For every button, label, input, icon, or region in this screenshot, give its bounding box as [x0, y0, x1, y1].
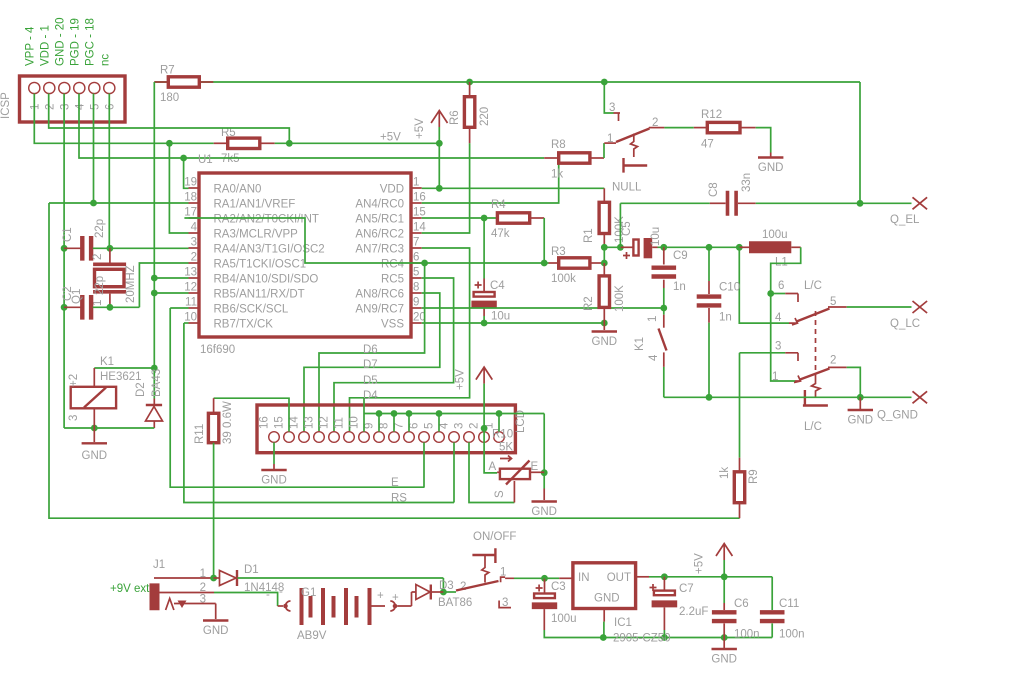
junction [421, 260, 428, 267]
svg-text:R1: R1 [583, 228, 595, 243]
svg-text:+2: +2 [68, 374, 80, 387]
svg-text:5: 5 [89, 104, 101, 110]
svg-text:OUT: OUT [607, 572, 631, 584]
svg-text:2: 2 [44, 104, 56, 110]
junction [721, 634, 728, 641]
wire LCD ground bus down to pot E [543, 414, 545, 473]
U1 pin 10 RB7/TX/CK stub [189, 322, 200, 324]
U1 pin 15 AN5/RC1 stub [411, 217, 422, 219]
svg-text:1n: 1n [719, 312, 732, 324]
wire to C8 [620, 202, 709, 204]
svg-text:RA4/AN3/T1GI/OSC2: RA4/AN3/T1GI/OSC2 [214, 244, 325, 256]
U1 pin 13 RB4/AN10/SDI/SDO stub [189, 277, 200, 279]
svg-text:8: 8 [379, 423, 391, 429]
svg-text:100n: 100n [734, 629, 760, 641]
ground symbol under C6 [712, 648, 737, 650]
U1 pin 7 AN7/RC3 stub [411, 247, 422, 249]
svg-text:8: 8 [413, 282, 419, 294]
potentiometer R10 5K [497, 471, 500, 473]
svg-text:+5V: +5V [694, 553, 706, 574]
svg-text:10: 10 [349, 416, 361, 429]
pin Q_GND [913, 391, 928, 403]
wire LCD pin stub x=394 [393, 414, 395, 432]
svg-text:22p: 22p [94, 276, 106, 295]
wire PGD to R8 [79, 94, 544, 159]
svg-text:Q_LC: Q_LC [890, 318, 920, 330]
connector ICSP J? box [20, 76, 126, 122]
wire R11 bottom to +9V node [213, 443, 215, 578]
wire C8 to Q_EL [756, 202, 912, 204]
svg-text:RA1/AN1/VREF: RA1/AN1/VREF [214, 199, 296, 211]
wire R8 to NULL pin1 [603, 143, 605, 158]
wire C8 branch down to C5 node [619, 203, 621, 247]
LCD pin 8 circle [389, 432, 400, 443]
capacitor C7 2.2uF [663, 577, 665, 591]
inductor L1 100u [739, 246, 749, 248]
svg-text:6: 6 [409, 423, 421, 429]
pin Q_LC [913, 301, 928, 313]
svg-text:VDD: VDD [380, 184, 404, 196]
capacitor C5 10u [620, 246, 633, 248]
svg-text:R3: R3 [551, 246, 566, 258]
wire +5V to LCD pin2 [483, 384, 485, 429]
capacitor C9 1n [663, 247, 665, 264]
junction [481, 320, 488, 327]
svg-text:E: E [531, 461, 539, 473]
junction [436, 410, 443, 417]
svg-text:2: 2 [830, 355, 836, 367]
svg-text:220: 220 [479, 107, 491, 126]
wire NULL pin3 from top rail [604, 82, 613, 113]
wire K1 contact to Q_GND line [663, 367, 665, 397]
wire GND rail x=64 [63, 94, 65, 429]
wire D5 net U1 pin5 to LCD pin12 [334, 278, 454, 432]
svg-text:3: 3 [454, 423, 466, 429]
svg-text:C6: C6 [734, 598, 749, 610]
IC U1 16f690 box [199, 173, 411, 337]
wire to L/C pin6 [771, 293, 786, 295]
svg-text:RC4: RC4 [381, 259, 405, 271]
svg-text:AN8/RC6: AN8/RC6 [355, 289, 404, 301]
L/C switch mechanical link [815, 311, 817, 377]
resistor R8 [559, 153, 590, 163]
svg-text:1k: 1k [551, 169, 563, 181]
wire R5 right lead [260, 142, 275, 144]
wire C1 left lead [64, 247, 81, 249]
ground under R12 [758, 156, 783, 158]
svg-text:RA0/AN0: RA0/AN0 [214, 184, 262, 196]
svg-text:20MHZ: 20MHZ [125, 265, 137, 303]
L/C switch pin 6 stub [785, 294, 798, 303]
ICSP pin 2 circle [44, 82, 55, 93]
svg-text:GND: GND [261, 475, 287, 487]
wire rail from PGC node down-left and bottom [49, 203, 740, 518]
svg-text:9: 9 [413, 297, 419, 309]
svg-text:D2: D2 [135, 382, 147, 397]
crystal Q1 20MHz [93, 263, 126, 294]
+5V supply arrow at regulator [716, 544, 732, 561]
svg-text:2: 2 [469, 423, 481, 429]
svg-text:RB6/SCK/SCL: RB6/SCK/SCL [214, 304, 289, 316]
wire Q_GND line [664, 396, 912, 398]
capacitor C1 22p [80, 236, 93, 261]
wire D1 cathode to ON/OFF node [238, 577, 444, 579]
wire VDD from ICSP pin2 [49, 94, 290, 144]
svg-text:2: 2 [460, 581, 466, 593]
LCD pin 15 circle [284, 432, 295, 443]
wire U1 pin12 connection [154, 292, 188, 294]
svg-text:100n: 100n [779, 629, 805, 641]
svg-text:6: 6 [778, 280, 784, 292]
svg-text:R6: R6 [449, 110, 461, 125]
wire R2 bottom lead [603, 307, 605, 323]
svg-text:+5V: +5V [414, 118, 426, 139]
diode D2 BA43 [146, 404, 162, 406]
ground symbol under pot [532, 500, 557, 502]
wire R3 right lead [590, 262, 604, 264]
junction [481, 425, 488, 432]
wire relay-drive vertical x=154 [153, 82, 155, 399]
wire net +EL top rail y=82 [154, 81, 860, 83]
wire L/C pin3 down to R9 [739, 353, 741, 458]
wire C4 bottom to VSS line [483, 316, 485, 323]
battery G1 AB9V [278, 605, 283, 607]
svg-text:14: 14 [289, 416, 301, 429]
svg-text:R11: R11 [194, 424, 206, 444]
switch K1 contact [663, 315, 665, 328]
wire R4 right lead [530, 217, 545, 219]
wire R5 left lead [214, 142, 228, 144]
U1 pin 17 RA2/AN2/T0CKI/INT stub [189, 217, 200, 219]
wire R7 right lead [199, 81, 213, 83]
svg-text:1: 1 [772, 371, 778, 383]
wire D7 net U1 pin8 to LCD pin14 [304, 293, 440, 432]
svg-text:AN4/RC0: AN4/RC0 [355, 199, 404, 211]
wire VSS U1 pin20 to GND [422, 322, 605, 324]
wire +5V arrow stem [723, 560, 725, 577]
svg-text:A: A [489, 461, 497, 473]
wire C10 bottom [708, 323, 710, 398]
U1 pin 18 RA1/AN1/VREF stub [189, 202, 200, 204]
svg-text:+5V: +5V [380, 132, 401, 144]
svg-text:7k5: 7k5 [221, 153, 240, 165]
svg-text:R9: R9 [748, 469, 760, 484]
wire RA2 pin17 through box to RC4 [184, 218, 421, 263]
capacitor C6 plates [712, 610, 737, 623]
svg-text:PGC - 18: PGC - 18 [84, 18, 96, 66]
svg-text:C3: C3 [551, 581, 566, 593]
svg-text:Q1: Q1 [71, 289, 83, 304]
svg-text:14: 14 [413, 222, 426, 234]
wire LCD pin3 to pot wiper [469, 442, 514, 502]
junction [617, 244, 624, 251]
svg-text:RB4/AN10/SDI/SDO: RB4/AN10/SDI/SDO [214, 274, 319, 286]
svg-text:5K: 5K [499, 442, 513, 454]
wire LCD ground bus [364, 413, 544, 415]
wire LCD pin stub x=409 [408, 414, 410, 432]
svg-text:D6: D6 [363, 344, 378, 356]
svg-text:S: S [494, 490, 506, 498]
ICSP pin 4 circle [74, 82, 85, 93]
wire R1 to R2 node [603, 247, 605, 263]
svg-text:+5V: +5V [455, 369, 467, 390]
svg-text:NULL: NULL [612, 182, 642, 194]
junction [436, 185, 443, 192]
wire U1 pin11 stub join [170, 307, 188, 309]
wire crystal top to U1 pin3 [93, 247, 189, 249]
junction [736, 244, 743, 251]
svg-text:HE3621: HE3621 [100, 371, 142, 383]
svg-text:1n: 1n [673, 281, 686, 293]
wire RS to LCD pin4 [453, 442, 455, 502]
svg-text:D7: D7 [363, 359, 378, 371]
svg-text:2.2uF: 2.2uF [679, 606, 708, 618]
svg-text:1: 1 [200, 568, 206, 580]
LCD pin 2 circle [479, 432, 490, 443]
svg-text:19: 19 [184, 177, 197, 189]
svg-text:R12: R12 [701, 109, 722, 121]
junction [166, 140, 173, 147]
svg-text:RS: RS [391, 493, 407, 505]
svg-text:C1: C1 [62, 227, 74, 242]
junction [496, 410, 503, 417]
wire R12 left lead [694, 127, 708, 129]
capacitor C2 22p [80, 295, 93, 320]
svg-text:5: 5 [413, 267, 419, 279]
svg-text:D1: D1 [244, 564, 259, 576]
svg-text:GND: GND [82, 450, 108, 462]
wire LCD pin stub x=499 [498, 414, 500, 432]
LCD pin 16 circle [269, 432, 280, 443]
wire LCD pin stub x=439 [438, 414, 440, 432]
svg-text:R4: R4 [491, 199, 506, 211]
junction [857, 200, 864, 207]
wire LCD pin10 column [363, 398, 365, 432]
wire crystal bottom jog to U1 pin2 OSC1 [139, 263, 188, 307]
L/C switch upper pole pin4-5 [789, 318, 798, 325]
wire D4 net U1 pin7 to LCD pin11 [350, 248, 470, 432]
LCD pin 12 circle [329, 432, 340, 443]
diode D1 1N4148 [214, 577, 220, 579]
svg-text:18: 18 [184, 192, 197, 204]
svg-text:16f690: 16f690 [200, 344, 235, 356]
wire switch to C3/IN node [514, 577, 545, 579]
wire C4 top [483, 218, 485, 279]
svg-text:1: 1 [413, 177, 419, 189]
svg-text:GND: GND [203, 625, 229, 637]
wire +5V to arrow [275, 142, 440, 144]
junction [661, 573, 668, 580]
wire LCD pin stub x=379 [378, 414, 380, 432]
ground symbol under LCD pin16 [261, 469, 286, 471]
svg-text:7: 7 [394, 423, 406, 429]
U1 pin 8 AN8/RC6 stub [411, 292, 422, 294]
svg-text:nc: nc [99, 54, 111, 66]
junction [601, 320, 608, 327]
ICSP pin 6 circle [104, 82, 115, 93]
svg-text:6: 6 [413, 252, 419, 264]
svg-text:VPP - 4: VPP - 4 [24, 26, 36, 66]
NULL actuator [631, 134, 638, 158]
svg-text:R2: R2 [583, 296, 595, 311]
wire to ground under pot [543, 473, 545, 489]
svg-text:4: 4 [648, 354, 660, 361]
resistor R6 [464, 97, 474, 128]
LCD pin 1 circle [494, 432, 505, 443]
svg-text:16: 16 [413, 192, 426, 204]
svg-text:AN6/RC2: AN6/RC2 [355, 229, 404, 241]
svg-text:ON/OFF: ON/OFF [473, 531, 516, 543]
wire L/C pin2 down to Q_GND line [847, 367, 861, 397]
svg-text:100u: 100u [762, 229, 788, 241]
resistor R4 [497, 213, 529, 223]
junction [466, 79, 473, 86]
junction [767, 290, 774, 297]
LCD pin 6 circle [419, 432, 430, 443]
svg-text:GND - 20: GND - 20 [54, 17, 66, 66]
wire L1 right to switch common [771, 247, 801, 381]
svg-text:C9: C9 [673, 250, 688, 262]
wire PGC node to rail [49, 202, 94, 204]
capacitor C11 plates [760, 610, 785, 623]
wire C5 left [604, 246, 620, 248]
wire R1 bottom lead [603, 234, 605, 248]
svg-text:13: 13 [184, 267, 197, 279]
wire J1 pin2 to battery minus [214, 593, 278, 607]
svg-text:15: 15 [413, 207, 426, 219]
svg-text:IC1: IC1 [614, 617, 632, 629]
svg-text:GND: GND [711, 654, 737, 666]
svg-text:1: 1 [647, 316, 659, 322]
wire E to LCD pin6 [423, 442, 425, 487]
svg-text:+: + [377, 590, 384, 602]
svg-text:3: 3 [59, 104, 71, 110]
junction [601, 260, 608, 267]
ground under J1 [215, 604, 217, 620]
svg-text:2: 2 [200, 582, 206, 594]
junction [481, 215, 488, 222]
svg-text:G1: G1 [301, 587, 316, 599]
svg-text:33n: 33n [741, 173, 753, 192]
U1 pin 2 RA5/T1CKI/OSC1 stub [189, 262, 200, 264]
svg-text:3: 3 [775, 341, 781, 353]
svg-text:RA5/T1CKI/OSC1: RA5/T1CKI/OSC1 [214, 259, 307, 271]
svg-text:+9V ext: +9V ext [110, 583, 150, 595]
svg-text:IN: IN [578, 572, 590, 584]
wire VPP to U1 pin4 MCLR [169, 143, 188, 233]
svg-text:7: 7 [413, 237, 419, 249]
junction [857, 394, 864, 401]
svg-text:9: 9 [364, 423, 376, 429]
svg-text:10u: 10u [491, 311, 510, 323]
wire L1 node to L/C pin4 [739, 247, 789, 323]
svg-text:11: 11 [185, 297, 197, 309]
wire R2 top lead [603, 263, 605, 276]
U1 pin 20 VSS stub [411, 322, 422, 324]
svg-text:C7: C7 [679, 583, 694, 595]
junction [660, 244, 667, 251]
wire RC4 line [422, 262, 549, 264]
junction [391, 410, 398, 417]
IC IC1 2905-CZ50 regulator box [573, 563, 636, 609]
svg-text:13: 13 [304, 416, 316, 429]
wire NULL pin2 to R12 [664, 127, 693, 129]
junction [376, 410, 383, 417]
junction [107, 245, 114, 252]
svg-text:1: 1 [29, 104, 41, 110]
svg-text:R10: R10 [492, 429, 513, 441]
switch ON/OFF [443, 591, 456, 593]
junction [600, 634, 607, 641]
wire U1 pin16 to R8 left [422, 164, 559, 203]
U1 pin 4 RA3/MCLR/VPP stub [189, 232, 200, 234]
ground K1 [93, 428, 95, 442]
svg-text:3: 3 [502, 597, 508, 609]
svg-text:2: 2 [191, 252, 197, 264]
svg-text:3: 3 [200, 594, 206, 606]
LCD pin 13 circle [314, 432, 325, 443]
svg-text:16: 16 [259, 416, 271, 429]
svg-text:GND: GND [848, 415, 874, 427]
wire R7 left lead [154, 81, 168, 83]
junction [91, 425, 98, 432]
junction [660, 305, 667, 312]
U1 pin 6 RC4 stub [411, 262, 422, 264]
resistor R12 [707, 122, 740, 132]
wire R6 bottom lead [469, 127, 471, 143]
svg-text:12: 12 [184, 282, 197, 294]
LCD pin 14 circle [299, 432, 310, 443]
wire IC1 OUT +5V bus [649, 576, 772, 578]
svg-text:1: 1 [500, 567, 506, 579]
wire PGC to U1 pin18 [94, 94, 189, 204]
svg-text:BAT86: BAT86 [438, 597, 472, 609]
L/C switch pin 3 stub [785, 353, 798, 361]
wire L/C pin5 to Q_LC [847, 306, 912, 308]
svg-text:GND: GND [531, 506, 557, 518]
U1 pin 14 AN6/RC2 stub [411, 232, 422, 234]
wire R3 left lead [549, 262, 559, 264]
junction [406, 410, 413, 417]
junction [440, 589, 447, 596]
svg-text:C4: C4 [490, 280, 505, 292]
ground symbol under J1 [203, 619, 228, 621]
wire down to Q_EL line [859, 82, 861, 203]
svg-text:VDD - 1: VDD - 1 [39, 25, 51, 66]
junction [61, 245, 68, 252]
svg-text:D3: D3 [439, 580, 454, 592]
svg-text:4: 4 [439, 422, 451, 429]
LCD pin 10 circle [359, 432, 370, 443]
wire crystal bottom jog segment [93, 306, 140, 308]
U1 pin 9 AN9/RC7 stub [411, 307, 422, 309]
connector LCD box [257, 405, 515, 453]
wire R8 left lead [544, 157, 559, 159]
junction [541, 260, 548, 267]
LCD pin 7 circle [404, 432, 415, 443]
svg-text:6: 6 [104, 104, 116, 110]
wire +5V arrow to VDD line [438, 127, 440, 188]
svg-text:4: 4 [191, 222, 198, 234]
junction [601, 244, 608, 251]
LCD pin 5 circle [434, 432, 445, 443]
wire GND bottom left [64, 427, 154, 429]
ground under R2 [603, 323, 605, 330]
relay coil K1 HE3621 [71, 387, 116, 409]
svg-text:AN5/RC1: AN5/RC1 [355, 214, 404, 226]
wire E net [170, 308, 424, 487]
junction [286, 140, 293, 147]
